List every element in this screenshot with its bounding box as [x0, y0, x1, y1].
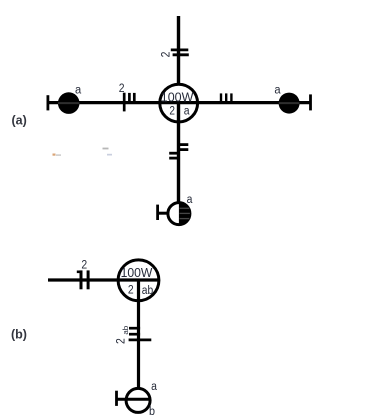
wire: vertical drop (b) [137, 280, 140, 389]
svg-text:2: 2 [169, 106, 175, 118]
lamp E1 100W circle (a) [160, 84, 198, 122]
stray faint marks between figures [53, 148, 113, 156]
conductor marks drop cable (2 short left + 1 long tick) [129, 328, 152, 340]
socket outlet right (filled) [279, 93, 300, 114]
svg-text:a: a [274, 85, 281, 97]
conductor marks top cable (2 ticks) [171, 50, 189, 55]
svg-text:a: a [151, 381, 157, 393]
svg-text:a: a [187, 194, 193, 206]
svg-text:ab: ab [142, 285, 153, 297]
socket outlet left (filled) [58, 92, 80, 114]
conductor marks down cable (2 right + 2 left ticks) [169, 145, 188, 159]
wire: top feed (a) [177, 16, 180, 85]
svg-text:2: 2 [160, 52, 172, 58]
svg-text:2: 2 [119, 83, 125, 95]
terminal bar left (a) [47, 95, 50, 110]
svg-text:(a): (a) [12, 114, 27, 128]
svg-text:(b): (b) [11, 328, 27, 342]
svg-text:100W: 100W [121, 266, 153, 280]
wire: switch stub (a) [158, 212, 169, 215]
conductor marks right cable (3 short ticks) [221, 93, 231, 103]
wire: horizontal feed (b) [48, 278, 159, 281]
svg-text:2: 2 [128, 285, 134, 297]
lamp E2 100W circle (b) [118, 260, 159, 301]
svg-text:2: 2 [81, 260, 87, 272]
svg-text:100W: 100W [161, 91, 194, 105]
switch S2 circle (two-way, open) [126, 388, 150, 412]
wire: chord through switch S2 [117, 398, 150, 401]
conductor marks left cable (1 long + 2 short ticks) [124, 93, 134, 112]
svg-text:a: a [75, 84, 82, 96]
terminal bar switch (b) [115, 391, 118, 406]
svg-text:ab: ab [121, 326, 130, 335]
svg-text:a: a [184, 106, 190, 118]
switch S1 circle (half filled) [168, 203, 190, 225]
wire: horizontal main run (a) [48, 101, 310, 104]
hook on first tick [77, 270, 82, 273]
terminal bar right (a) [309, 94, 312, 110]
terminal bar switch (a) [156, 205, 159, 220]
conductor marks feed cable (2 long ticks) [81, 270, 88, 289]
wire: vertical drop inside and below lamp (a) [177, 103, 180, 203]
svg-text:2: 2 [116, 338, 128, 344]
svg-text:b: b [149, 406, 155, 418]
